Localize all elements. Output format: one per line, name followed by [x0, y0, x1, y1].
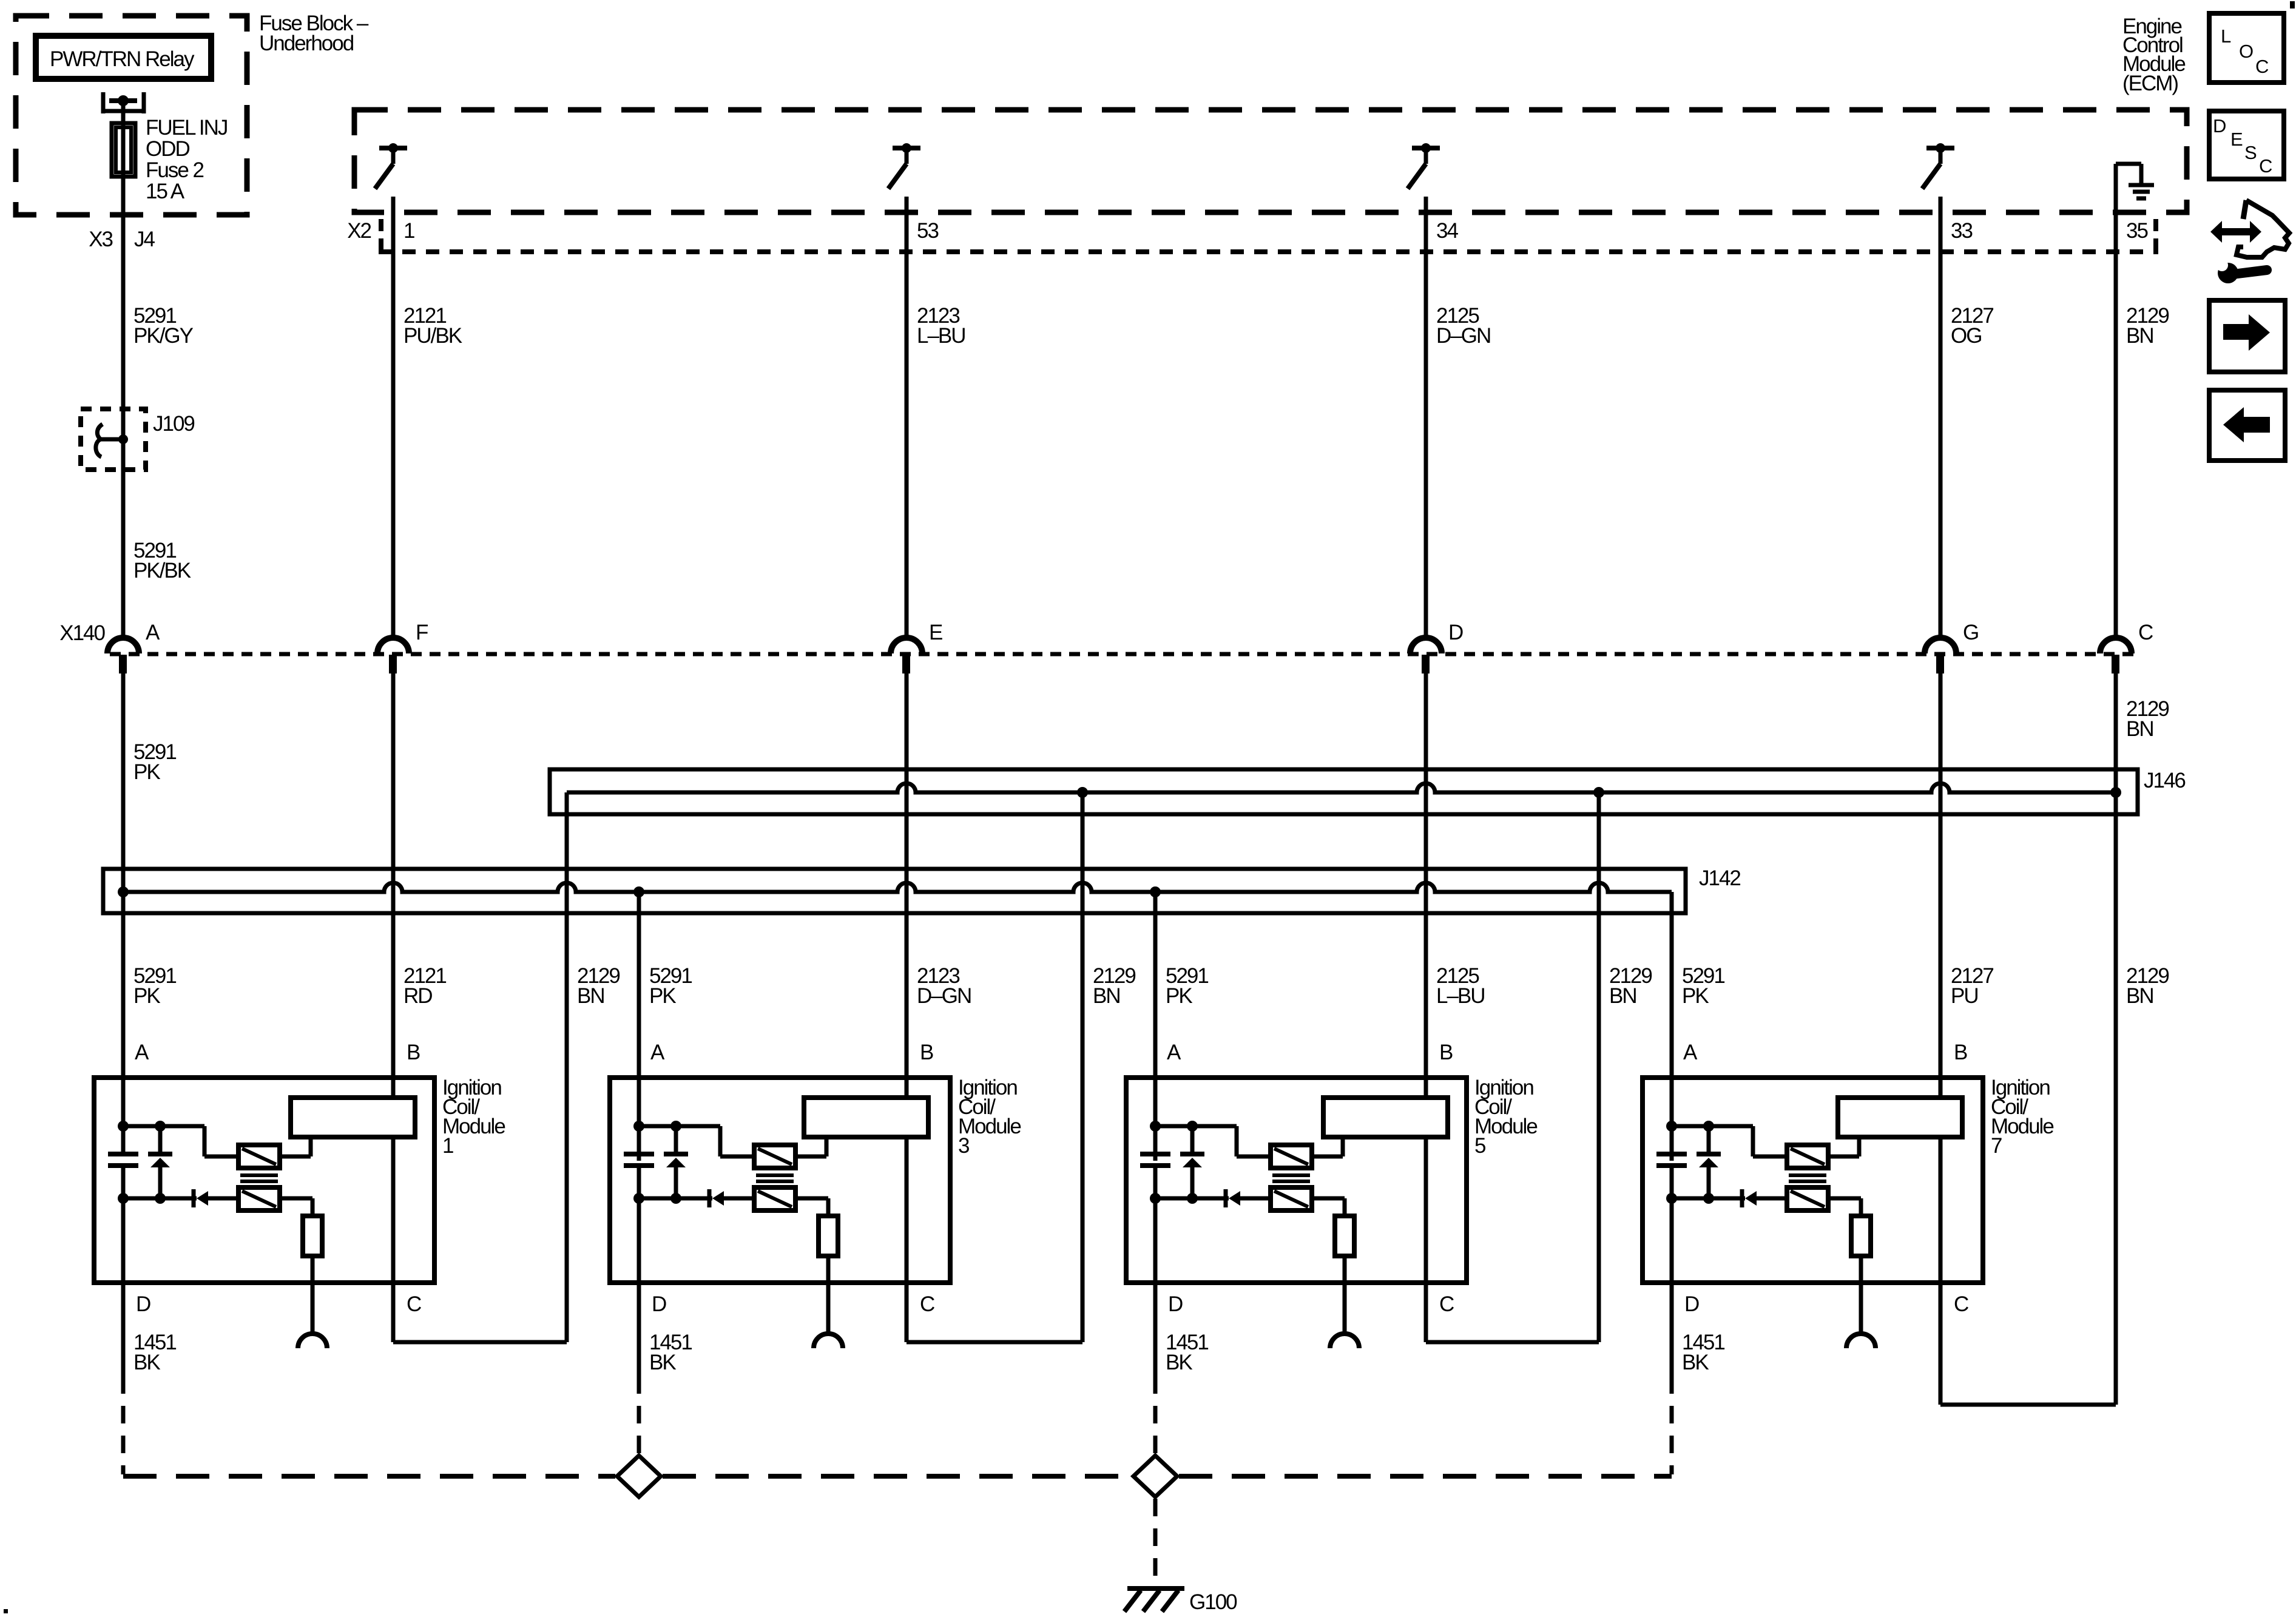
coil output block module 1: [291, 1098, 415, 1137]
capacitor C module 3: [624, 1152, 654, 1156]
svg-text:D: D: [2213, 115, 2226, 137]
dashed ground wire module 5: [1153, 1394, 1158, 1454]
fuse F FUEL INJ ODD Fuse 2 15A: [121, 101, 126, 123]
core module 7: [1789, 1173, 1826, 1177]
svg-text:BK: BK: [649, 1351, 676, 1374]
zener diode D1 module 7: [1707, 1126, 1711, 1152]
winding to coil block wire module 7: [1828, 1155, 1859, 1159]
svg-text:1: 1: [442, 1134, 453, 1158]
core module 5: [1272, 1173, 1310, 1177]
svg-text:BK: BK: [1682, 1351, 1709, 1374]
svg-text:D–GN: D–GN: [1436, 324, 1490, 348]
resistor R module 3: [819, 1216, 838, 1256]
ignition coil/module 7 box: [1643, 1078, 1983, 1283]
splice S diamond module 3: [617, 1456, 661, 1497]
spark plug output wire module 5: [1343, 1256, 1347, 1334]
svg-text:D: D: [1448, 621, 1463, 644]
zener diode D1 module 1: [158, 1126, 163, 1152]
top internal wire module 7: [1672, 1124, 1753, 1129]
svg-text:PK: PK: [1166, 984, 1192, 1008]
svg-text:BN: BN: [2126, 324, 2153, 348]
resistor R module 5: [1335, 1216, 1354, 1256]
coil output block module 7: [1838, 1098, 1962, 1137]
ground bus wire segment 1: [123, 1474, 615, 1479]
connector X140 row: [110, 652, 2136, 657]
page corner mark bottom: [4, 1609, 8, 1613]
svg-text:53: 53: [917, 219, 938, 243]
svg-text:X140: X140: [59, 621, 105, 645]
X140 pin G: [1925, 638, 1956, 653]
top internal wire module 3: [639, 1124, 720, 1129]
node diode-bottom module 5: [1187, 1193, 1198, 1204]
svg-text:C: C: [1954, 1292, 1968, 1316]
node A-top module 7: [1666, 1121, 1677, 1132]
svg-text:G100: G100: [1189, 1590, 1237, 1614]
wire 1451 BK pin D module 1: [121, 1283, 126, 1394]
resistor R module 7: [1851, 1216, 1871, 1256]
dashed ground wire module 1: [121, 1394, 126, 1474]
top internal wire module 5: [1155, 1124, 1237, 1129]
wire B feed module 5: [1424, 671, 1428, 1098]
spark gap module 3: [814, 1334, 843, 1348]
X140 pin C: [2100, 638, 2132, 653]
svg-text:PU/BK: PU/BK: [403, 324, 462, 348]
wire 5291 PK branch to module 7: [1670, 892, 1674, 1161]
secondary to resistor wire module 7: [1828, 1197, 1861, 1201]
wire 5291 PK branch to module 5: [1153, 892, 1158, 1161]
svg-text:Underhood: Underhood: [259, 32, 354, 55]
secondary to resistor wire module 1: [280, 1197, 312, 1201]
wire 1451 BK pin D module 3: [637, 1283, 641, 1394]
svg-text:3: 3: [958, 1134, 969, 1158]
svg-text:L: L: [2221, 25, 2231, 47]
ignition coil/module 1 box: [94, 1078, 434, 1283]
svg-text:BN: BN: [2126, 717, 2153, 741]
svg-text:PK: PK: [133, 760, 160, 784]
wire B feed module 1: [391, 671, 396, 1098]
diode D2 module 3: [707, 1189, 712, 1207]
svg-text:C: C: [2138, 621, 2153, 644]
svg-text:PK/BK: PK/BK: [133, 559, 191, 582]
secondary to resistor wire module 3: [795, 1197, 828, 1201]
winding to coil block wire module 1: [280, 1155, 311, 1159]
node A-bottom module 7: [1666, 1193, 1677, 1204]
svg-text:B: B: [920, 1041, 933, 1064]
bottom internal wire module 1: [123, 1197, 197, 1201]
J146 junction node M5: [1593, 787, 1604, 798]
splice pack J142 box: [103, 869, 1686, 913]
svg-text:A: A: [650, 1041, 665, 1064]
relay K PWR/TRN Relay: [36, 36, 211, 79]
svg-text:C: C: [2255, 56, 2269, 77]
svg-text:D: D: [1168, 1292, 1183, 1316]
spark gap module 5: [1330, 1334, 1359, 1348]
ECM dashed box: [354, 110, 2187, 212]
svg-text:F: F: [416, 621, 428, 644]
svg-text:BN: BN: [1609, 984, 1636, 1008]
secondary to resistor wire module 5: [1312, 1197, 1345, 1201]
wire A feed inside module 3: [637, 892, 641, 1152]
J142 internal 5291 PK bus wire: [123, 883, 1672, 892]
connector X2 row: [379, 249, 2158, 254]
svg-text:PK: PK: [649, 984, 676, 1008]
svg-text:J109: J109: [153, 412, 194, 436]
svg-text:RD: RD: [403, 984, 432, 1008]
svg-text:15 A: 15 A: [146, 180, 185, 203]
secondary winding module 7: [1787, 1187, 1828, 1210]
fuse block underhood box: [16, 16, 247, 215]
spark plug output wire module 1: [311, 1256, 315, 1334]
relay output terminal cup: [101, 92, 106, 113]
svg-text:D: D: [652, 1292, 666, 1316]
svg-text:BN: BN: [577, 984, 604, 1008]
svg-text:E: E: [929, 621, 942, 644]
dashed ground wire module 7: [1670, 1394, 1674, 1474]
dashed ground wire module 3: [637, 1394, 641, 1454]
svg-text:C: C: [920, 1292, 934, 1316]
winding to coil block wire module 5: [1312, 1155, 1343, 1159]
svg-text:PK: PK: [133, 984, 160, 1008]
spark plug output wire module 3: [826, 1256, 831, 1334]
svg-text:5: 5: [1474, 1134, 1485, 1158]
ignition coil/module 5 box: [1126, 1078, 1467, 1283]
wire B to C module 7: [1939, 1137, 1943, 1405]
icon DESC box: [2209, 111, 2284, 179]
wire A feed inside module 5: [1153, 892, 1158, 1152]
X140 pin A: [107, 638, 139, 653]
svg-text:L–BU: L–BU: [917, 324, 965, 348]
svg-text:34: 34: [1436, 219, 1458, 243]
icon LOC box: [2209, 13, 2284, 83]
spark plug output wire module 7: [1859, 1256, 1863, 1334]
top internal wire module 1: [123, 1124, 204, 1129]
svg-text:BK: BK: [133, 1351, 160, 1374]
bottom internal wire module 5: [1155, 1197, 1229, 1201]
wire B to C module 5: [1424, 1137, 1428, 1342]
page corner mark: [2290, 1, 2295, 8]
svg-text:G: G: [1963, 621, 1978, 644]
node diode-top module 1: [155, 1121, 166, 1132]
svg-text:7: 7: [1991, 1134, 2002, 1158]
diode D2 module 7: [1740, 1189, 1744, 1207]
secondary winding module 5: [1271, 1187, 1312, 1210]
wire 1451 BK pin D module 7: [1670, 1283, 1674, 1394]
icon forward arrow box: [2209, 300, 2285, 372]
svg-text:BN: BN: [2126, 984, 2153, 1008]
dashed wire to G100: [1153, 1499, 1158, 1585]
node diode-bottom module 1: [155, 1193, 166, 1204]
zener diode D1 module 5: [1190, 1126, 1195, 1152]
svg-text:X3: X3: [89, 228, 112, 251]
capacitor C module 5: [1140, 1152, 1170, 1156]
wire A feed inside module 7: [1670, 892, 1674, 1152]
svg-text:C: C: [1439, 1292, 1454, 1316]
svg-text:E: E: [2230, 129, 2243, 150]
splice pack J146 box: [550, 769, 2138, 814]
svg-text:PU: PU: [1951, 984, 1978, 1008]
svg-text:OG: OG: [1951, 324, 1981, 348]
wire B to C module 1: [391, 1137, 396, 1342]
spark gap module 7: [1846, 1334, 1876, 1348]
ECM internal ground pin 35: [2114, 164, 2118, 639]
svg-text:C: C: [2259, 155, 2272, 177]
svg-text:B: B: [1439, 1041, 1453, 1064]
ECM driver switch pin 53: [893, 146, 920, 150]
node A-top module 3: [633, 1121, 644, 1132]
wire 2129 BN branch to module 7: [2114, 671, 2118, 1405]
core module 3: [756, 1173, 794, 1177]
ECM driver switch pin 34: [1412, 146, 1440, 150]
wire 1451 BK pin D module 5: [1153, 1283, 1158, 1394]
node A-bottom module 1: [118, 1193, 129, 1204]
ECM driver switch pin 1: [379, 146, 407, 150]
svg-text:A: A: [1683, 1041, 1698, 1064]
J142 junction node A wire: [118, 886, 129, 897]
svg-text:O: O: [2239, 41, 2254, 62]
winding to coil block wire module 3: [795, 1155, 826, 1159]
primary winding module 5: [1271, 1145, 1312, 1168]
wire 5291 PK/GY from fuse to X140: [121, 101, 126, 639]
svg-text:J142: J142: [1699, 866, 1740, 890]
resistor R module 1: [303, 1216, 322, 1256]
splice J109: [81, 409, 146, 470]
node diode-bottom module 7: [1703, 1193, 1714, 1204]
secondary winding module 3: [754, 1187, 795, 1210]
svg-text:B: B: [407, 1041, 420, 1064]
wire 2129 BN branch to module 5: [1597, 792, 1601, 1342]
svg-text:X2: X2: [347, 219, 371, 243]
bottom internal wire module 3: [639, 1197, 712, 1201]
wire B to C module 3: [905, 1137, 909, 1342]
primary winding module 3: [754, 1145, 795, 1168]
J146 junction node M3: [1077, 787, 1088, 798]
secondary winding module 1: [238, 1187, 280, 1210]
X140 pin D: [1410, 638, 1442, 653]
svg-text:PK/GY: PK/GY: [133, 324, 194, 348]
splice S diamond module 5: [1133, 1456, 1177, 1497]
svg-text:D: D: [1684, 1292, 1699, 1316]
node diode-bottom module 3: [670, 1193, 681, 1204]
wire B feed module 3: [905, 671, 909, 1098]
ground bus wire segment 2: [663, 1474, 1132, 1479]
capacitor C module 7: [1656, 1152, 1687, 1156]
svg-text:S: S: [2244, 142, 2257, 163]
ground G100 symbol: [1127, 1586, 1184, 1591]
node A-bottom module 3: [633, 1193, 644, 1204]
J142 junction node M5: [1150, 886, 1161, 897]
svg-text:1: 1: [403, 219, 414, 243]
svg-text:35: 35: [2126, 219, 2147, 243]
wire A feed inside module 1: [121, 671, 126, 1152]
node diode-top module 5: [1187, 1121, 1198, 1132]
diode D2 module 1: [192, 1189, 196, 1207]
node A-top module 1: [118, 1121, 129, 1132]
svg-text:J146: J146: [2144, 769, 2185, 792]
bottom internal wire module 7: [1672, 1197, 1745, 1201]
X140 pin F: [377, 638, 409, 653]
svg-text:ODD: ODD: [146, 137, 190, 161]
svg-text:D–GN: D–GN: [917, 984, 971, 1008]
svg-text:A: A: [146, 621, 160, 644]
svg-text:L–BU: L–BU: [1436, 984, 1485, 1008]
coil output block module 5: [1323, 1098, 1448, 1137]
diode D2 module 5: [1224, 1189, 1228, 1207]
node A-bottom module 5: [1150, 1193, 1161, 1204]
coil output block module 3: [804, 1098, 928, 1137]
wire 2129 BN branch to module 3: [1081, 792, 1085, 1342]
node A-top module 5: [1150, 1121, 1161, 1132]
svg-text:A: A: [1167, 1041, 1181, 1064]
J146 internal 2129 BN bus wire: [567, 783, 2116, 792]
svg-text:(ECM): (ECM): [2122, 72, 2178, 95]
wire 5291 PK branch to module 3: [637, 892, 641, 1161]
svg-text:D: D: [136, 1292, 150, 1316]
svg-text:B: B: [1954, 1041, 1967, 1064]
svg-text:BK: BK: [1166, 1351, 1192, 1374]
J142 junction node M3: [633, 886, 644, 897]
primary winding module 1: [238, 1145, 280, 1168]
ignition coil/module 3 box: [610, 1078, 950, 1283]
J146 junction node ECM35: [2110, 787, 2121, 798]
capacitor C module 1: [108, 1152, 138, 1156]
svg-text:A: A: [135, 1041, 149, 1064]
icon back arrow box: [2209, 390, 2285, 461]
icon hand with double arrow and wrench: [2220, 228, 2252, 235]
wire 2129 BN branch to module 1: [565, 792, 569, 1342]
svg-text:FUEL INJ: FUEL INJ: [146, 116, 227, 140]
node diode-top module 7: [1703, 1121, 1714, 1132]
svg-text:J4: J4: [134, 228, 155, 251]
spark gap module 1: [298, 1334, 327, 1348]
svg-text:Fuse 2: Fuse 2: [146, 158, 204, 182]
zener diode D1 module 3: [674, 1126, 678, 1152]
svg-text:C: C: [407, 1292, 421, 1316]
X140 pin E: [891, 638, 922, 653]
svg-text:PWR/TRN Relay: PWR/TRN Relay: [50, 47, 195, 71]
ECM driver switch pin 33: [1926, 146, 1954, 150]
core module 1: [240, 1173, 278, 1177]
svg-text:33: 33: [1951, 219, 1972, 243]
primary winding module 7: [1787, 1145, 1828, 1168]
node diode-top module 3: [670, 1121, 681, 1132]
ground bus wire segment 3: [1179, 1474, 1672, 1479]
svg-text:PK: PK: [1682, 984, 1709, 1008]
svg-text:BN: BN: [1093, 984, 1120, 1008]
wire B feed module 7: [1939, 671, 1943, 1098]
